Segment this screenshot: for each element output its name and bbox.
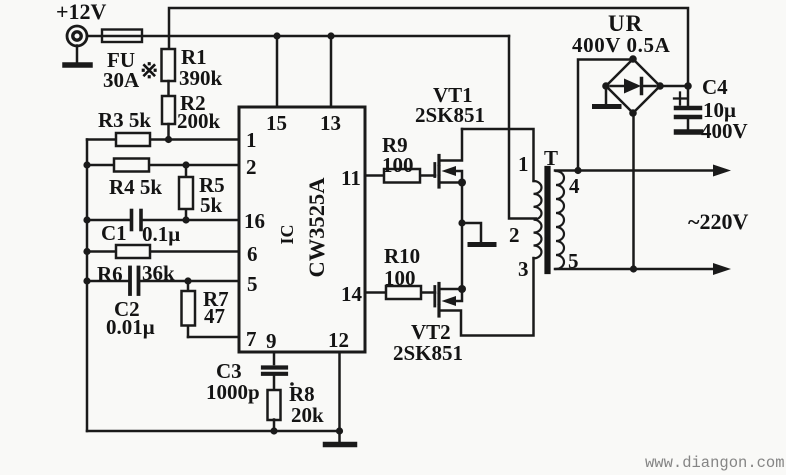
node bus pin16 [83,216,90,223]
transformer T primary winding [534,181,542,258]
ground under +12V terminal [65,46,90,66]
wire bridge AC2 down to pin5 line [632,113,635,269]
capacitor C4 10u 400V [674,86,700,130]
svg-text:3: 3 [518,257,529,281]
node junction pin13 rail [327,32,334,39]
transistor Q1 VT1 2SK851 [435,129,462,187]
svg-text:~220V: ~220V [688,209,748,234]
wire VT1 drain to transformer pin 1 [462,129,534,181]
wire pin 6 row [87,250,239,253]
wire +12V feed from terminal through fuse to center-tap branch [87,35,509,38]
wire left bus [86,140,89,432]
resistor R6 36k [116,245,150,258]
wire pin 13 [330,36,333,107]
svg-text:C1: C1 [101,221,127,245]
svg-text:14: 14 [341,282,363,306]
node R8 bottom rail [270,427,277,434]
svg-text:390k: 390k [179,66,223,90]
svg-text:+12V: +12V [56,0,107,24]
svg-text:C4: C4 [702,75,728,99]
svg-text:5k: 5k [200,193,223,217]
resistor R7 47 [182,281,196,337]
svg-text:30A: 30A [103,68,140,92]
ground between VT1 and VT2 [462,223,494,245]
wire bottom rail [87,430,340,433]
fuse FU 30A [102,30,142,43]
wire secondary pin 4 output line [555,169,714,172]
transformer T secondary winding [556,171,564,269]
svg-text:400V 0.5A: 400V 0.5A [572,33,671,57]
svg-text:200k: 200k [177,109,221,133]
node bridge bottom [629,109,637,117]
svg-text:16: 16 [244,209,265,233]
node VT2 source [458,285,466,293]
svg-text:12: 12 [328,328,349,352]
node bus pin6 [83,248,90,255]
resistor R5 5k [179,165,193,220]
svg-text:20k: 20k [291,403,324,427]
bridge inner diode [611,79,655,94]
resistor R4 5k [114,159,149,172]
svg-text:※: ※ [140,58,158,83]
svg-text:www.diangon.com: www.diangon.com [645,454,785,472]
wire pin 1 row [87,138,239,141]
svg-text:4: 4 [569,174,580,198]
node C4 top junction [684,82,692,90]
node bus pin2 [83,161,90,168]
svg-text:T: T [544,146,558,170]
node VT1 source [458,179,466,187]
node source ground junction [458,219,465,226]
wire R1-R2 [167,81,170,96]
terminal +12V input [67,26,87,46]
capacitor C1 0.1u [132,211,142,230]
svg-text:2SK851: 2SK851 [393,341,463,365]
wire pin4 junction up to bridge AC1 [578,60,633,171]
wire pin 2 row [87,164,239,167]
wire pin 14 to gate VT2 [365,291,435,294]
svg-text:1: 1 [246,128,257,152]
resistor R1 390k [162,49,176,81]
svg-text:1000p: 1000p [206,380,260,404]
node bridge right [656,82,664,90]
ground C4 bottom [677,129,701,135]
svg-text:13: 13 [320,111,341,135]
resistor R10 100 [386,286,421,299]
svg-text:0.01μ: 0.01μ [106,315,155,339]
svg-text:R6: R6 [97,262,123,286]
wire pin 5 row [87,280,239,283]
ground pin 12 [326,442,355,448]
node R5 top [182,161,189,168]
capacitor C2 0.01u [130,268,139,295]
wire R2 bottom to pin1 row [167,124,170,140]
wire pin 16 row [87,219,239,222]
wire pin 9 [273,352,276,364]
node pin12 rail [336,427,343,434]
svg-text:400V: 400V [701,119,748,143]
arrow output bottom [713,263,731,275]
node R5 bottom [182,216,189,223]
node bridge left [602,82,610,90]
resistor R2 200k [162,96,175,124]
svg-text:CW3525A: CW3525A [304,177,329,278]
svg-text:R3 5k: R3 5k [98,108,151,132]
wire VT1 source to VT2 source [461,183,464,290]
node R7 top pin5 row [184,277,191,284]
svg-text:IC: IC [277,224,297,244]
svg-text:6: 6 [247,242,258,266]
wire bridge plus to C4 junction [660,85,688,88]
arrow output top [713,165,731,177]
svg-text:100: 100 [384,266,416,290]
svg-text:47: 47 [204,304,225,328]
svg-text:R10: R10 [384,244,420,268]
svg-text:15: 15 [266,111,287,135]
svg-text:5: 5 [247,272,258,296]
node junction pin15 rail [273,32,280,39]
transistor Q2 VT2 2SK851 [435,258,534,336]
resistor R3 5k [116,133,150,146]
svg-text:5: 5 [568,249,579,273]
bridge rectifier UR diamond [606,59,660,113]
wire center-tap drop to transformer pin 2 [509,36,536,219]
resistor R9 100 [384,169,420,183]
svg-text:2SK851: 2SK851 [415,103,485,127]
wire pin 7 row [188,336,239,339]
capacitor C3 1000p [263,368,286,391]
svg-text:36k: 36k [142,261,175,285]
resistor R8 20k [268,390,281,431]
transformer core [544,169,550,271]
IC U1 CW3525A box [239,107,365,352]
svg-text:2: 2 [509,223,520,247]
node bridge top [629,55,637,63]
svg-text:1: 1 [518,152,529,176]
node bridge AC2 output junction [630,265,637,272]
wire pin 15 [276,36,279,107]
svg-text:100: 100 [382,153,414,177]
label R8 20k [290,382,294,386]
svg-text:7: 7 [246,327,257,351]
ground bridge minus [595,86,620,107]
svg-text:0.1μ: 0.1μ [142,222,180,246]
svg-text:9: 9 [266,329,277,353]
wire pin 11 to gate VT1 [365,174,435,177]
svg-text:R4 5k: R4 5k [109,175,162,199]
svg-text:11: 11 [341,166,361,190]
node secondary pin 4 junction [574,167,581,174]
node bus pin5 [83,277,90,284]
wire top feedback rail from R1 top to bridge output [169,8,688,86]
wire pin 12 down [338,352,341,442]
wire secondary pin 5 output line [555,268,714,271]
node R2/pin1 row junction [165,136,172,143]
svg-text:2: 2 [246,155,257,179]
